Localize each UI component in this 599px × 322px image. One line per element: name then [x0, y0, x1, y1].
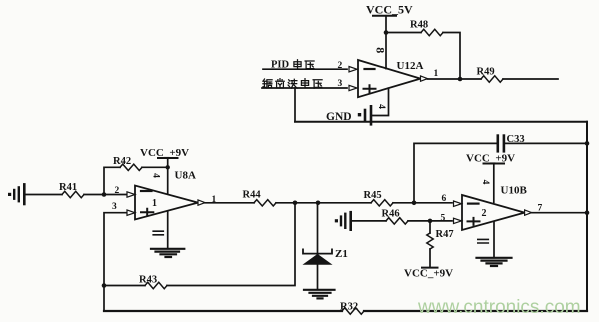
pin 2 label U8A	[115, 186, 120, 196]
pin arrow input 3 U8A	[127, 210, 135, 215]
node R43 tap	[293, 201, 298, 206]
pin arrow output 7	[525, 210, 532, 215]
resistor R32	[340, 302, 587, 315]
resistor R45	[364, 190, 415, 206]
pin 3 wire U8A	[104, 213, 127, 311]
pin 7 label	[538, 204, 543, 214]
node C33 right	[585, 141, 590, 146]
resistor R44	[243, 190, 372, 207]
pin 11 wire U8A	[167, 211, 169, 248]
svg-text:4: 4	[151, 173, 161, 178]
svg-text:R41: R41	[59, 182, 77, 193]
svg-text:R44: R44	[243, 190, 262, 201]
svg-text:1: 1	[152, 198, 157, 209]
node on VCC line	[384, 30, 389, 35]
pin arrow input 6	[454, 201, 462, 206]
ground U8A	[151, 249, 184, 257]
svg-text:3: 3	[338, 79, 343, 89]
pin 2 label	[338, 61, 343, 71]
svg-text:5: 5	[441, 213, 446, 223]
wire pin 6	[414, 202, 452, 204]
svg-text:U10B: U10B	[501, 185, 528, 197]
pin 4 label U8A	[151, 173, 161, 178]
wire PID input	[263, 68, 347, 70]
pin 2 wire U8A	[104, 194, 127, 196]
pin arrow input 5	[454, 218, 462, 223]
power VCC_+9V U10B	[466, 153, 515, 203]
label U8A	[175, 170, 196, 182]
capacitor C33	[414, 134, 587, 203]
resistor R41	[26, 182, 105, 198]
wire output U12A	[428, 78, 482, 80]
svg-text:Z1: Z1	[335, 248, 348, 260]
ground R46	[335, 212, 351, 230]
svg-text:R46: R46	[382, 209, 400, 220]
svg-text:R45: R45	[364, 190, 382, 201]
power VCC_+9V U8A	[140, 147, 189, 194]
svg-text:U12A: U12A	[397, 60, 424, 72]
svg-text:1: 1	[434, 69, 439, 79]
resistor R46	[352, 209, 452, 225]
svg-text:2: 2	[115, 186, 120, 196]
svg-text:VCC_+9V: VCC_+9V	[404, 268, 453, 280]
node output U12A	[458, 77, 463, 82]
wire right rail	[586, 122, 588, 311]
resistor R48	[386, 20, 460, 80]
svg-text:2: 2	[338, 61, 343, 71]
svg-text:6: 6	[442, 194, 447, 204]
node output rail	[585, 210, 590, 215]
resistor R43	[104, 203, 295, 289]
pin arrow input 2	[349, 67, 357, 72]
pin 11 label U8A	[153, 231, 163, 235]
svg-text:PID: PID	[271, 60, 290, 71]
pin 8 label	[374, 47, 388, 53]
pin 4 wire U12A	[372, 88, 389, 115]
pin 5 label	[441, 213, 446, 223]
node R47 tap	[428, 219, 433, 224]
svg-text:U8A: U8A	[175, 170, 196, 182]
resistor R42	[104, 156, 168, 195]
pin arrow input 3	[349, 85, 357, 90]
ground input left	[8, 184, 24, 204]
pin arrow input 2 U8A	[127, 192, 135, 197]
svg-text:8: 8	[374, 47, 388, 53]
svg-text:C33: C33	[507, 134, 525, 145]
pin 4 label	[376, 104, 386, 109]
wire bottom rail left	[104, 310, 342, 312]
op-amp U12A	[358, 60, 421, 97]
ground Z1	[304, 290, 335, 299]
resistor R47	[427, 221, 454, 268]
ground GND	[326, 106, 371, 124]
svg-text:3: 3	[112, 202, 117, 212]
power VCC_5V	[366, 3, 413, 69]
zener Z1	[303, 203, 348, 289]
node Z1 tap	[316, 201, 321, 206]
wire sawtooth branch vertical	[294, 88, 296, 122]
pin 6 label	[442, 194, 447, 204]
pin 1 label	[434, 69, 439, 79]
node R42/VCC	[166, 165, 170, 169]
pin 3 label U8A	[112, 202, 117, 212]
svg-text:2: 2	[482, 208, 487, 219]
node input U8A	[102, 192, 107, 197]
power VCC_+9V R47	[404, 268, 453, 280]
svg-text:4: 4	[376, 104, 386, 109]
pin 11 wire U10B	[493, 222, 495, 257]
wire sawtooth input	[262, 87, 347, 89]
label PID电压	[271, 60, 290, 71]
svg-text:www.cntronics.com: www.cntronics.com	[417, 297, 581, 318]
node R43 left	[102, 283, 107, 288]
label U10B	[501, 185, 528, 197]
resistor R49	[477, 67, 559, 83]
pin 1 label out U8A	[212, 195, 217, 205]
svg-text:R48: R48	[410, 20, 428, 31]
svg-text:R49: R49	[477, 67, 495, 78]
op-amp U8A	[135, 186, 198, 220]
wire output U8A	[205, 202, 254, 204]
wire top rail	[295, 121, 587, 123]
label 锯齿波电压	[263, 79, 272, 88]
pin arrow output U8A	[198, 200, 205, 205]
svg-text:R47: R47	[436, 229, 454, 240]
svg-text:4: 4	[480, 180, 490, 185]
svg-text:VCC_5V: VCC_5V	[366, 3, 413, 17]
pin 11 label U10B	[478, 239, 489, 243]
op-amp U10B	[462, 195, 525, 230]
node C33 tap	[412, 201, 417, 206]
wire output U10B	[532, 212, 587, 214]
pin 4 label U10B	[480, 180, 490, 185]
svg-text:R43: R43	[139, 275, 157, 286]
pin 3 label	[338, 79, 343, 89]
ground U10B	[477, 258, 512, 266]
pin arrow output 1	[421, 76, 428, 81]
